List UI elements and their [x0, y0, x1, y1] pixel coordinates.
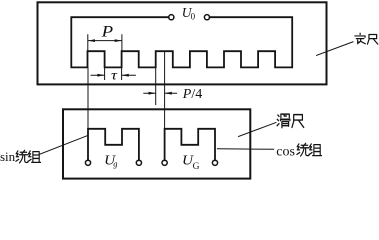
svg-text:0: 0	[191, 11, 196, 21]
glyph 组 (of cos绕组)	[309, 144, 321, 156]
sin winding terminal circles	[85, 160, 90, 165]
dimension P/4 arrows	[144, 92, 177, 94]
hand-drawn CJK glyphs	[16, 33, 378, 163]
stator box (定尺 outline)	[38, 2, 327, 84]
sin winding	[88, 129, 139, 160]
glyph 滑 (of 滑尺)	[277, 114, 290, 128]
sin winding alignment line from stator tooth down	[87, 67, 89, 129]
leader line to 定尺 label	[317, 42, 353, 56]
svg-text:P: P	[100, 24, 113, 41]
P/4 reference line from cos winding conductor up to stator	[164, 51, 166, 129]
dimension tau arrows (outside, pointing inward)	[91, 74, 135, 76]
svg-text:g: g	[113, 159, 117, 169]
svg-text:G: G	[193, 162, 200, 172]
slider box (滑尺 outline)	[63, 109, 250, 178]
glyph 尺 (of 滑尺)	[292, 115, 304, 128]
cos winding terminal circles	[162, 160, 167, 165]
leader line to sin绕组 label	[40, 136, 88, 155]
cos winding	[165, 129, 215, 160]
dimension P line with arrows	[88, 40, 121, 42]
terminal circle U0 right	[204, 15, 209, 20]
stator winding (meander with U0 feed)	[71, 17, 292, 67]
leader line to 滑尺 label	[239, 123, 277, 137]
glyph 尺 (of 定尺)	[367, 35, 377, 45]
dimension tau extension lines	[105, 67, 122, 79]
leader line to cos绕组 label	[217, 148, 273, 151]
P/4 reference line from stator tooth edge	[155, 67, 157, 104]
svg-text:/4: /4	[191, 87, 202, 102]
dimension P extension lines	[88, 35, 122, 51]
svg-text:sin: sin	[0, 149, 16, 164]
glyph 绕 (of sin绕组)	[16, 150, 28, 163]
svg-text:P: P	[182, 87, 192, 102]
glyph 绕 (of cos绕组)	[297, 143, 309, 156]
svg-text:cos: cos	[276, 144, 295, 159]
terminal circle U0 left	[169, 15, 174, 20]
glyph 定 (of 定尺)	[355, 33, 365, 43]
glyph 组 (of sin绕组)	[28, 151, 40, 163]
